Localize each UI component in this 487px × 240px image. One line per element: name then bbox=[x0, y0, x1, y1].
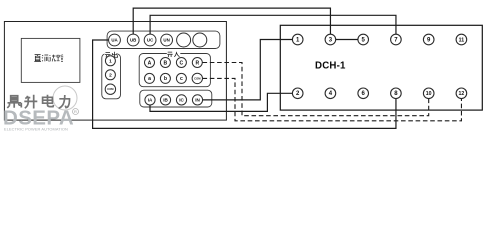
terminal UN bbox=[161, 34, 173, 46]
watermark logo circle bbox=[53, 86, 77, 110]
svg-text:UN: UN bbox=[163, 38, 169, 43]
label 开出 bbox=[105, 52, 118, 58]
svg-text:B: B bbox=[164, 60, 168, 66]
watermark 鼎升电力 bbox=[7, 95, 69, 109]
wire UB to terminal 3 bbox=[133, 8, 330, 34]
svg-text:R: R bbox=[195, 60, 199, 66]
terminal 2 bbox=[292, 88, 303, 99]
terminal 5 bbox=[358, 34, 369, 45]
svg-text:A: A bbox=[148, 60, 152, 66]
dashed wire R to terminal 10 bbox=[203, 63, 429, 116]
wire UA to terminal 8 bbox=[93, 40, 396, 128]
svg-text:IB: IB bbox=[163, 98, 168, 103]
terminal IB bbox=[160, 95, 170, 105]
input R bbox=[192, 58, 202, 68]
terminal IN bbox=[192, 95, 202, 105]
svg-text:DCH-1: DCH-1 bbox=[315, 60, 346, 71]
input B bbox=[160, 58, 170, 68]
svg-text:UA: UA bbox=[111, 38, 118, 43]
terminal 1 bbox=[292, 34, 303, 45]
svg-text:COM: COM bbox=[194, 76, 201, 80]
terminal 12 bbox=[456, 88, 467, 99]
blank terminal bbox=[193, 33, 207, 47]
wire UC to terminal 7 bbox=[150, 15, 396, 34]
terminal 11 bbox=[456, 34, 467, 45]
svg-text:IA: IA bbox=[148, 98, 153, 103]
svg-text:COM: COM bbox=[107, 87, 114, 91]
input COM bbox=[192, 73, 202, 83]
terminal IA bbox=[145, 95, 155, 105]
output contact 1 bbox=[105, 56, 115, 66]
svg-text:2: 2 bbox=[109, 73, 112, 79]
terminal 7 bbox=[391, 34, 402, 45]
terminal 4 bbox=[325, 88, 336, 99]
input a bbox=[145, 73, 155, 83]
svg-text:12: 12 bbox=[459, 91, 465, 97]
terminal 6 bbox=[358, 88, 369, 99]
DC test module box bbox=[21, 38, 80, 82]
terminal UB bbox=[127, 34, 139, 46]
label 开入 bbox=[167, 52, 179, 57]
svg-text:C: C bbox=[180, 60, 184, 66]
svg-text:c: c bbox=[180, 76, 183, 82]
wire IA to terminal 2 bbox=[150, 93, 292, 111]
svg-text:b: b bbox=[164, 76, 167, 82]
watermark (R) bbox=[73, 109, 79, 115]
svg-text:1: 1 bbox=[109, 59, 112, 65]
dashed wire COM to terminal 12 bbox=[203, 78, 462, 120]
DCH-1 terminal block bbox=[280, 25, 482, 110]
jumper terminal 3 to 5 bbox=[336, 39, 358, 41]
input A bbox=[145, 58, 155, 68]
output contact COM bbox=[105, 84, 115, 94]
relay test set panel bbox=[4, 22, 226, 121]
svg-text:IC: IC bbox=[179, 98, 184, 103]
blank terminal bbox=[177, 33, 191, 47]
current output group box bbox=[140, 90, 212, 107]
svg-text:R: R bbox=[74, 109, 77, 114]
output contact 2 bbox=[105, 70, 115, 80]
svg-text:11: 11 bbox=[459, 37, 465, 43]
label 直流试验 (DC test) bbox=[34, 55, 63, 62]
terminal UC bbox=[144, 34, 156, 46]
terminal IC bbox=[176, 95, 186, 105]
binary input (开入) group box bbox=[139, 54, 210, 87]
input C bbox=[176, 58, 186, 68]
svg-text:ELECTRIC POWER AUTOMATION: ELECTRIC POWER AUTOMATION bbox=[4, 126, 68, 131]
svg-text:10: 10 bbox=[426, 91, 432, 97]
terminal UA bbox=[109, 34, 121, 46]
svg-text:IN: IN bbox=[195, 98, 200, 103]
terminal 10 bbox=[423, 88, 434, 99]
wire IN to terminal 1 bbox=[203, 40, 293, 100]
voltage output group box bbox=[107, 31, 220, 48]
svg-text:UB: UB bbox=[130, 38, 136, 43]
svg-text:a: a bbox=[148, 76, 151, 82]
input b bbox=[160, 73, 170, 83]
terminal 8 bbox=[391, 88, 402, 99]
terminal 3 bbox=[325, 34, 336, 45]
terminal 9 bbox=[423, 34, 434, 45]
binary output (开出) group box bbox=[102, 54, 121, 99]
svg-text:UC: UC bbox=[147, 38, 154, 43]
input c bbox=[176, 73, 186, 83]
